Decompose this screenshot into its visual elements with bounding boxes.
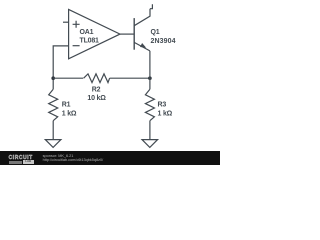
- wire: [52, 121, 54, 140]
- resistor R2: [84, 74, 110, 83]
- ground: [45, 140, 61, 148]
- resistor R3: [145, 89, 154, 121]
- svg-text:R2: R2: [92, 87, 101, 94]
- wire: [120, 33, 134, 35]
- svg-text:1 kΩ: 1 kΩ: [158, 110, 173, 117]
- svg-text:TL081: TL081: [80, 37, 100, 44]
- CircuitLab logo: [9, 156, 33, 161]
- wire: [63, 21, 69, 23]
- node: [51, 76, 55, 80]
- wire: [149, 121, 151, 140]
- watermark bar: [0, 151, 220, 165]
- wire: [53, 46, 68, 89]
- ground: [142, 140, 158, 148]
- svg-text:OA1: OA1: [80, 29, 94, 36]
- svg-text:Q1: Q1: [151, 29, 160, 36]
- svg-text:R1: R1: [62, 102, 71, 109]
- resistor R1: [49, 89, 58, 121]
- wire: [150, 4, 152, 9]
- node: [148, 76, 152, 80]
- wire: [110, 77, 150, 79]
- svg-text:10 kΩ: 10 kΩ: [87, 95, 106, 102]
- svg-text:2N3904: 2N3904: [151, 38, 176, 45]
- svg-text:R3: R3: [158, 102, 167, 109]
- transistor Q1: [134, 9, 150, 51]
- wire: [53, 77, 83, 79]
- sponsor text: [43, 154, 104, 162]
- op-amp U1: [69, 9, 120, 58]
- wire: [149, 51, 151, 89]
- svg-text:1 kΩ: 1 kΩ: [62, 110, 77, 117]
